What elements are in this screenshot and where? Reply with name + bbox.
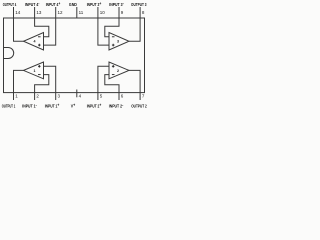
svg-text:5: 5 [100,94,103,99]
op-amp A2 minus input mark [112,74,115,76]
svg-text:3: 3 [58,94,61,99]
wire pin2 to A1 inverting input [35,75,49,93]
pin 14 lead [13,7,15,18]
svg-text:10: 10 [100,10,106,15]
wire pin7 to A2 output [129,70,140,92]
op-amp A4 triangle [24,33,44,51]
op-amp A1 triangle [24,62,44,79]
svg-text:INPUT 1+: INPUT 1+ [45,102,60,108]
op-amp A1 plus input mark [38,65,41,68]
pin 13 lead [34,7,36,18]
svg-text:1: 1 [15,94,18,99]
pin 2 lead [34,93,36,100]
pin 7 lead [139,93,141,100]
pin 11 lead [76,7,78,18]
pin 5 lead [97,93,99,100]
svg-text:OUTPUT 2: OUTPUT 2 [131,103,147,108]
svg-text:9: 9 [121,10,124,15]
svg-text:4: 4 [34,40,36,44]
wire pin3 to A1 non-inverting input [44,66,56,92]
svg-text:14: 14 [15,10,21,15]
wire pin10 to A3 non-inverting input [98,18,109,45]
pin 4 lead [76,90,78,98]
svg-text:OUTPUT 3: OUTPUT 3 [131,2,147,7]
svg-text:2: 2 [117,69,119,73]
svg-text:8: 8 [142,10,145,15]
svg-text:OUTPUT 4: OUTPUT 4 [3,2,17,7]
svg-text:INPUT 1-: INPUT 1- [22,102,37,108]
pin 6 lead [118,93,120,100]
svg-text:4: 4 [79,94,82,99]
svg-text:3: 3 [117,40,119,44]
IC body outline U1 [4,18,145,93]
pin 9 lead [118,7,120,18]
op-amp A3 plus input mark [112,44,115,47]
svg-text:7: 7 [142,94,145,99]
svg-text:INPUT 2-: INPUT 2- [109,102,124,108]
pin 1 lead [13,93,15,100]
svg-text:1: 1 [34,69,36,73]
op-amp A2 plus input mark [112,65,115,68]
pin 10 lead [97,7,99,18]
wire pin12 to A4 non-inverting input [44,18,56,45]
wire pin13 to A4 inverting input [35,18,49,37]
wire pin6 to A2 inverting input [105,75,119,93]
wire pin8 to A3 output [129,18,140,41]
svg-text:INPUT 2+: INPUT 2+ [87,102,102,108]
svg-text:OUTPUT 1: OUTPUT 1 [2,103,16,108]
svg-text:13: 13 [36,10,42,15]
svg-text:2: 2 [36,94,39,99]
op-amp A3 minus input mark [112,36,115,38]
package notch [4,48,14,59]
pin 12 lead [55,7,57,18]
svg-text:12: 12 [58,10,64,15]
wire pin9 to A3 inverting input [105,18,119,37]
op-amp A4 plus input mark [38,44,41,47]
pin 8 lead [139,7,141,18]
pin 3 lead [55,93,57,100]
op-amp A3 triangle [109,33,129,51]
op-amp A1 minus input mark [38,74,41,76]
svg-text:INPUT 4-: INPUT 4- [25,1,40,7]
op-amp A4 minus input mark [38,36,41,38]
wire pin5 to A2 non-inverting input [98,66,109,92]
op-amp A2 triangle [109,62,129,79]
svg-text:INPUT 3-: INPUT 3- [109,1,124,7]
svg-text:V+: V+ [71,102,76,108]
svg-text:6: 6 [121,94,124,99]
svg-text:INPUT 3+: INPUT 3+ [87,1,102,7]
wire pin1 to A1 output [14,70,24,92]
svg-text:GND: GND [69,2,77,7]
svg-text:11: 11 [79,10,84,15]
svg-text:INPUT 4+: INPUT 4+ [46,1,61,7]
wire pin14 to A4 output [14,18,24,41]
